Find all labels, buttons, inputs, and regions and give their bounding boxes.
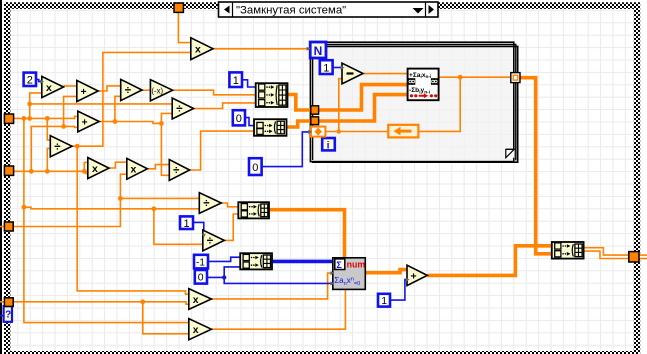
wire: constant 1d to add A3 lower input: [390, 280, 407, 301]
for loop structure frame: [310, 42, 517, 162]
top border tunnel T0: [174, 3, 183, 12]
svg-text:N: N: [314, 44, 323, 58]
svg-text:÷: ÷: [173, 165, 180, 177]
constant 0a: [233, 110, 245, 125]
subtract node (in loop): [341, 63, 363, 84]
svg-text:+: +: [81, 86, 87, 98]
wire: constant -1 to build-array B3 upper input: [208, 257, 240, 261]
wire: top tunnel down to multiply MT upper input: [178, 12, 190, 43]
svg-text:(-x): (-x): [151, 86, 163, 95]
add A3: [406, 265, 428, 285]
wire: tunnel T4 to multiply M7 lower input: [0, 302, 189, 304]
wire: T4 branch drop to multiply M8 lower input: [143, 302, 189, 334]
wire: tunnel T1 bus to add A2 upper input: [13, 116, 78, 118]
svg-text:+: +: [82, 117, 88, 129]
constant -1: [194, 255, 208, 269]
wire: divide D2 output to build-array B1 bottom input: [194, 103, 256, 109]
feedback node (left arrow): [388, 125, 418, 138]
feedback initializer terminal (diamond): [308, 127, 325, 137]
wire: add A2 output to junction rail: [99, 122, 161, 124]
svg-text:"Замкнутая система": "Замкнутая система": [236, 4, 346, 16]
case structure top border (checkered): [4, 2, 634, 9]
case selector label bar: [219, 2, 439, 17]
wire: loop array output to build-array B4 lower input: [520, 78, 552, 254]
wire: multiply M1 output to add A1 upper input: [64, 85, 77, 87]
wire: DA junction drop to multiply M7 upper input: [77, 146, 189, 294]
wire: multiply M2 output to multiply M3 upper input: [109, 162, 127, 168]
wire: multiply M8 output to num node bottom input: [211, 289, 345, 329]
loop left tunnel B: [311, 117, 319, 125]
case structure left border (checkered): [4, 2, 10, 351]
wire: constant 0c to build-array B3 lower input and num node: [207, 267, 240, 278]
svg-text:1: 1: [323, 62, 329, 74]
for loop corner fold: [506, 149, 514, 157]
wire: T1 bus drop to divide DA upper input: [47, 118, 50, 139]
svg-text:x: x: [92, 163, 98, 175]
wire: build-array B2 array output to loop tunnel B: [287, 121, 311, 127]
wire: junction riser to divide D2 lower input: [161, 113, 172, 123]
left border tunnel T2: [4, 166, 13, 175]
svg-text:÷: ÷: [207, 236, 214, 248]
wire: branch to divide D2 upper input: [30, 103, 173, 105]
svg-text:1: 1: [381, 295, 387, 307]
wire: build-array B1 array output to loop tunnel A: [288, 95, 311, 111]
wire: subtract output to sigma node input 1: [363, 73, 408, 75]
wire: loop tunnel A to sigma node input 2: [319, 85, 408, 110]
svg-text:1: 1: [184, 218, 190, 230]
constant 1a: [229, 72, 242, 87]
wire: constant 2 to multiply M1 upper input: [36, 80, 42, 82]
svg-text:?: ?: [5, 309, 11, 320]
constant 1c: [180, 216, 193, 229]
constant 0b: [249, 158, 262, 175]
svg-text:i: i: [327, 140, 330, 152]
multiply M8: [189, 319, 212, 340]
case structure bottom border (checkered): [4, 351, 640, 354]
wire: T3 branch to divide D5 upper input: [120, 197, 199, 199]
junction dot (blue): [222, 275, 226, 279]
wire: multiply MT output to loop count N: [213, 48, 310, 50]
multiply M7: [189, 289, 212, 310]
wire: add A1 output to divide D1 upper input: [98, 86, 121, 91]
case selector terminal ?: [4, 306, 12, 322]
outer window left black edge: [0, 0, 2, 354]
wire: T2 riser to multiply M2 upper input: [84, 162, 88, 171]
constant 0c: [195, 270, 207, 284]
loop left tunnel A: [311, 106, 319, 114]
add A1: [77, 80, 98, 101]
wire: branch down to divide D6 lower input: [154, 209, 203, 245]
wire: junction riser to divide D1 lower input: [115, 96, 121, 121]
svg-text:÷: ÷: [125, 85, 132, 97]
svg-text:x: x: [46, 82, 52, 94]
loop count terminal N: [307, 42, 326, 58]
svg-text:x: x: [193, 294, 199, 306]
loop right indexing output tunnel: [511, 73, 520, 83]
multiply M3: [127, 158, 148, 179]
build-array B4 (2 inputs, output 2D): [552, 242, 584, 259]
svg-text:0: 0: [252, 162, 258, 174]
wire: branch to divide D5 lower input: [24, 207, 199, 209]
wire: case selector stub: [0, 315, 4, 317]
wire: divide D6 output to build-array B5 lower input: [224, 214, 238, 240]
build-array B1 (3 inputs): [256, 83, 288, 107]
wire: feedback node to shift initializer and subtract: [325, 131, 388, 133]
wire: tunnel T2 bus to multiply M2 lower input: [13, 171, 88, 173]
constant 1e (in loop): [320, 60, 333, 74]
wire: T1 bus riser up to multiply M1 lower input: [30, 93, 42, 119]
svg-text:0: 0: [198, 272, 204, 284]
svg-text:1: 1: [233, 75, 239, 87]
svg-text:x: x: [193, 324, 199, 336]
wire: constant 1c to divide D6 upper input: [193, 222, 204, 233]
wire: tunnel T3 to multiply M3 lower input: [0, 174, 127, 226]
right border tunnel T5: [629, 252, 639, 262]
wire: loop tunnel B to sigma node input 3: [319, 95, 408, 121]
left border tunnel T4: [4, 298, 13, 307]
svg-text:÷: ÷: [203, 198, 210, 210]
svg-text:-1: -1: [196, 257, 205, 268]
wire: divide D5 output to build-array B5 upper input: [221, 203, 238, 207]
wire: constant 1e to subtract upper input: [333, 67, 342, 69]
wire: T2 riser to divide DA lower input: [47, 148, 50, 171]
svg-text:÷: ÷: [54, 141, 61, 153]
wire: constant 1a to build-array B1 top input: [242, 80, 256, 87]
svg-text:x: x: [131, 164, 137, 176]
multiply MT (top): [191, 38, 213, 60]
wire: constant 0a to build-array B2 top input: [245, 118, 254, 126]
build-array B2 (2 inputs): [254, 119, 287, 136]
wire: constant 0b to feedback initializer: [262, 132, 311, 167]
svg-text:num: num: [347, 259, 366, 269]
left border tunnel T3: [4, 222, 13, 231]
divide D4: [169, 160, 189, 181]
divide D6: [202, 230, 225, 251]
svg-text:+: +: [411, 270, 417, 282]
divide D5: [199, 193, 221, 214]
build-array B5 (2 inputs): [238, 202, 269, 218]
negate node: [150, 80, 172, 101]
loop iteration terminal i: [322, 138, 335, 152]
divide D1: [121, 79, 142, 100]
svg-text:÷: ÷: [176, 104, 183, 116]
wire: divide D4 output to build-array B2 lower input: [190, 131, 254, 170]
wire: T2 riser to add lower inputs rail: [31, 126, 78, 171]
wire: multiply M7 output to num node left input: [211, 273, 332, 299]
svg-text:x: x: [195, 44, 201, 56]
wire: num node output to add A3 upper input: [365, 270, 407, 273]
sigma filter node (AR model): [408, 69, 439, 101]
constant 2: [24, 73, 36, 87]
multiply M2: [88, 158, 109, 179]
constant 1d: [378, 294, 390, 307]
wire: rail riser to add A1 lower input: [64, 96, 77, 126]
wire: T1 bus long drop to multiply M8 upper input: [24, 118, 189, 322]
left border tunnel T1: [4, 114, 13, 123]
wire: build-array B3 thick blue output to num node: [272, 260, 333, 264]
add A2: [78, 111, 99, 132]
divide DA: [50, 136, 72, 157]
wire: junction drop to divide D4 lower input: [161, 123, 169, 175]
svg-text:Σ: Σ: [336, 260, 342, 270]
svg-text:0: 0: [236, 113, 242, 125]
wire: divide D1 output to negate input: [142, 89, 150, 91]
wire: add A3 output to build-array B4 upper input: [427, 246, 552, 276]
svg-text:2: 2: [27, 75, 33, 87]
wire: riser to subtract lower input: [339, 79, 342, 132]
wire: build-array B5 array output to num node top: [269, 210, 345, 258]
wire: sigma output to loop tunnel and feedback: [439, 76, 511, 78]
wire: divide DA output junction: [72, 52, 191, 146]
wire: negate output to build-array B1 middle input: [173, 90, 256, 95]
divide D2: [172, 98, 193, 119]
case structure right border (checkered): [634, 2, 640, 354]
num node (polynomial evaluation): [330, 258, 365, 290]
wire: build-array B4 2D output to right tunnel T5: [584, 249, 647, 256]
wire: multiply M3 output to divide D4 upper input: [147, 165, 169, 169]
multiply M1: [40, 76, 63, 97]
build-array B3 (2 inputs, integer): [240, 253, 272, 269]
wire: sigma output drop to feedback node: [418, 77, 460, 131]
